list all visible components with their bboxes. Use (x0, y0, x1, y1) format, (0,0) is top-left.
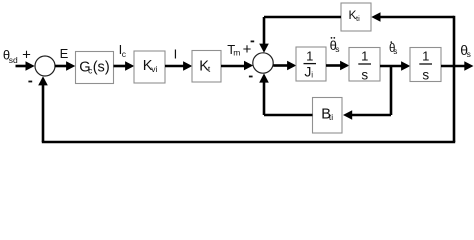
wire summer 1 to Gc(s) (55, 65, 68, 68)
svg-text:1: 1 (361, 49, 368, 64)
wire output with tap (441, 65, 466, 68)
node T_m label with plus (227, 41, 251, 58)
svg-text:s: s (335, 44, 339, 54)
node theta_sd input label (3, 48, 18, 65)
minus sign above summer 2 (251, 40, 255, 42)
wire Bti to summer 2 bottom (264, 114, 313, 117)
svg-text:sd: sd (9, 55, 18, 65)
summing junction S1 (35, 56, 55, 76)
inertia block 1/Ji (296, 47, 326, 81)
integrator block 1/s (first) (349, 48, 380, 83)
wire summer 2 to 1/Ji (273, 64, 288, 67)
svg-text:s: s (361, 67, 368, 82)
wire Kt to summer 2 (221, 65, 246, 68)
summing junction S2 (253, 53, 273, 73)
svg-text:(s): (s) (93, 59, 110, 75)
wire feedback tap up to Kti loop (453, 16, 456, 66)
svg-text:i: i (311, 71, 313, 80)
svg-text:s: s (422, 67, 429, 82)
svg-text:E: E (60, 46, 69, 61)
integrator block 1/s (second) (410, 48, 441, 83)
svg-text:s: s (467, 49, 471, 59)
wire integrator 1 to integrator 2 with tap (380, 65, 403, 68)
wire outer feedback up to summer 1 (42, 85, 45, 142)
amplifier block Kvi (134, 51, 165, 83)
svg-text:m: m (233, 47, 240, 57)
svg-text:s: s (393, 47, 397, 56)
node I_c label (119, 42, 127, 59)
wire damping tap down (390, 66, 393, 115)
svg-text:vi: vi (151, 64, 157, 74)
wire outer feedback bottom (42, 141, 455, 144)
output arrowhead (464, 61, 473, 71)
wire outer feedback down from output tap (453, 66, 456, 142)
wire Kti to summer 2 top (264, 16, 341, 19)
wire top horizontal into Kti (379, 16, 454, 19)
damping block Bti (313, 98, 343, 134)
svg-text:ti: ti (329, 112, 333, 122)
svg-text:1: 1 (306, 49, 313, 64)
wire into Bti (351, 114, 391, 117)
wire 1/Ji to integrator 1 (326, 64, 342, 67)
wire input to summer 1 (16, 65, 28, 68)
controller block Gc(s) (76, 52, 114, 84)
svg-text:+: + (243, 41, 252, 58)
wire Gc to Kvi (114, 65, 127, 68)
svg-text:ti: ti (356, 14, 360, 23)
rate gain block Kti (341, 3, 371, 31)
svg-text:+: + (22, 47, 31, 64)
node theta_s output label (460, 42, 471, 59)
torque constant block Kt (192, 51, 221, 83)
node theta_s dot label (389, 41, 397, 56)
node theta_s doubledot label (330, 37, 340, 54)
arrowhead into summer 1 (26, 61, 35, 71)
minus sign below summer 1 (28, 81, 32, 83)
svg-text:c: c (122, 49, 127, 59)
svg-text:1: 1 (422, 49, 429, 64)
minus sign below-left of summer 2 (249, 76, 253, 78)
svg-text:I: I (174, 47, 178, 62)
wire Kvi to Kt (165, 65, 185, 68)
